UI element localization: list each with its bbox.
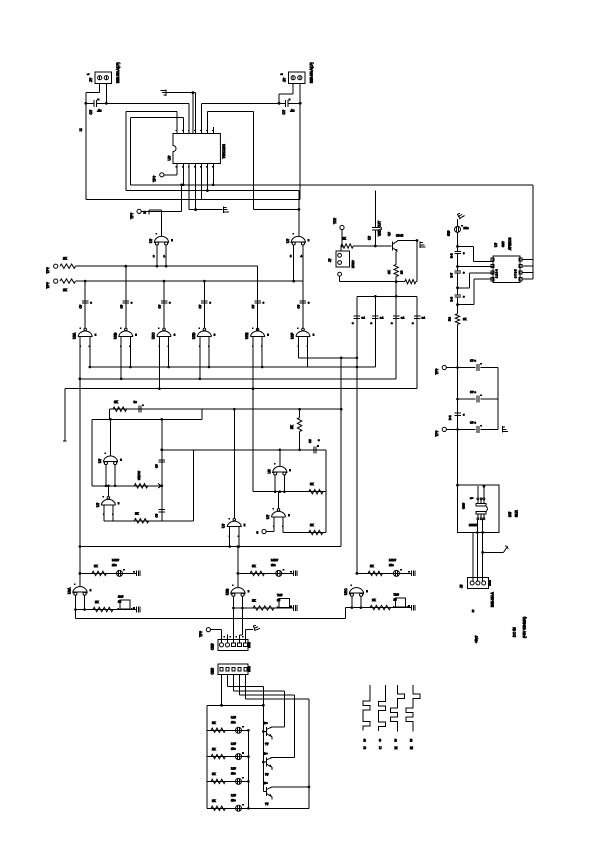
pin bubble U4B <box>262 529 266 533</box>
wire CH1 pin2 stub <box>227 635 229 640</box>
wire gate U5X feed <box>233 409 235 518</box>
svg-text:C?: C? <box>308 439 312 443</box>
nand gate U?B <box>119 328 138 347</box>
wire chain a <box>457 232 459 251</box>
wire row2M <box>233 607 293 609</box>
junction chain a <box>456 245 459 248</box>
junctions row2M <box>232 607 244 610</box>
crystal Y1 <box>117 600 132 610</box>
svg-text:16: 16 <box>118 600 122 604</box>
wire IC pin1 bot <box>176 164 178 175</box>
wire fan p4 <box>239 675 241 695</box>
ground right column <box>457 211 465 219</box>
wire block row4 <box>207 807 249 809</box>
nand gate U?F <box>296 328 315 347</box>
svg-text:(+5V GB4MA): (+5V GB4MA) <box>523 617 527 638</box>
wire block left <box>206 705 208 808</box>
wire crystal drop2 <box>374 230 376 246</box>
capacitor column C3 <box>82 301 89 303</box>
svg-text:DC IN: DC IN <box>513 627 517 637</box>
wire IC pin5 bot <box>201 164 203 200</box>
resistor R8 <box>309 530 323 534</box>
wire block row2 <box>207 756 249 758</box>
junction chain c <box>456 286 459 289</box>
svg-text:U?: U? <box>268 469 272 473</box>
junctions legs buses <box>89 366 264 390</box>
junction collector <box>416 239 419 242</box>
wire U4B pin stub <box>266 531 274 533</box>
wire row2R riser <box>345 608 347 619</box>
svg-text:.1u: .1u <box>290 109 295 113</box>
wire gate column 2 <box>125 266 127 328</box>
svg-text:o.1: o.1 <box>361 316 365 320</box>
svg-text:U?: U? <box>286 239 290 243</box>
junctions mid row A <box>279 449 301 452</box>
ground top left <box>161 90 167 96</box>
wire gate leg 10 <box>307 337 309 368</box>
svg-text:C?: C? <box>155 464 159 468</box>
resistor R15 <box>250 571 265 575</box>
transistor Q4 <box>263 787 309 800</box>
wire fan p3 <box>233 675 235 691</box>
resistor R17 <box>368 571 383 575</box>
svg-text:B2B-XH-A(LF): B2B-XH-A(LF) <box>310 62 314 83</box>
svg-text:U?D: U?D <box>192 332 196 339</box>
waveform trace D1 <box>406 685 420 732</box>
svg-text:M: M <box>410 746 413 750</box>
capacitor C10 <box>159 460 166 462</box>
wire IC pin3 bot <box>188 164 190 210</box>
junction J2 pin2 <box>299 102 302 105</box>
wire rail x341 <box>340 358 342 547</box>
svg-text:33.R: 33.R <box>515 510 519 517</box>
wire J2 pin2 drop long <box>299 84 301 200</box>
wire gate leg 2 <box>120 337 122 379</box>
wire TP7 link <box>211 629 222 631</box>
diode D8 <box>236 804 245 811</box>
wire resistor drop <box>299 409 301 417</box>
junction gate A legs <box>156 265 168 268</box>
svg-text:GH?: GH? <box>462 503 466 510</box>
junction J1 pin2 <box>105 102 108 105</box>
svg-text:2K: 2K <box>94 564 98 568</box>
wire gate column 5 <box>302 281 304 328</box>
capacitor bypass x356 <box>354 316 361 318</box>
svg-text:APE8O8: APE8O8 <box>508 237 512 250</box>
junctions bracket <box>374 295 398 298</box>
svg-text:15o: 15o <box>231 798 236 802</box>
junction TC1 <box>341 245 344 248</box>
wire row2R <box>346 607 411 609</box>
wire net L5 <box>189 209 222 211</box>
wire chain top <box>162 449 194 451</box>
svg-text:J?: J? <box>460 584 464 588</box>
junction block top <box>262 704 265 707</box>
svg-text:SN74?: SN74? <box>137 470 141 480</box>
svg-text:TP?: TP? <box>199 631 203 637</box>
testpoint TP4 <box>54 279 58 283</box>
wire CH1 pin5 <box>245 630 247 640</box>
terminator row2R <box>408 605 415 611</box>
junction T3 rail <box>308 786 311 789</box>
svg-text:o.1: o.1 <box>401 316 405 320</box>
nand gate U?E <box>250 328 269 347</box>
wire row1R <box>357 572 411 574</box>
connector J5 DC 3-pin <box>468 578 491 589</box>
svg-text:o.1: o.1 <box>380 316 384 320</box>
wire row1 <box>76 265 258 267</box>
wire left vertical net H <box>85 103 87 199</box>
wire gate column 3 <box>163 281 165 328</box>
wire to U5 pin1 <box>458 245 474 247</box>
wire J4 top <box>340 246 342 251</box>
diode D3 <box>276 569 285 576</box>
terminator row2L <box>133 607 140 613</box>
wire C1 right to IC pin3 net <box>97 102 190 104</box>
resistor R5 <box>134 519 149 523</box>
junction L2 pin6 <box>206 189 209 192</box>
wire net L3 <box>86 199 300 201</box>
wire IC pin6 bot <box>206 164 208 191</box>
svg-text:7M?: 7M? <box>393 593 399 597</box>
svg-text:D-7: D-7 <box>450 273 454 278</box>
ground Q1 <box>420 242 426 248</box>
svg-text:CH?: CH? <box>211 643 215 650</box>
svg-text:TP?: TP? <box>130 213 134 219</box>
capacitor C13 <box>372 227 379 229</box>
wire TC1 drop <box>341 230 343 246</box>
wire mid row B <box>253 491 326 493</box>
capacitor C12 <box>314 445 319 453</box>
junction 281 a <box>395 280 398 283</box>
wire U3B legs <box>103 505 105 521</box>
terminator row2M <box>290 605 297 611</box>
resistor R4 <box>134 484 148 488</box>
junction chain2 <box>160 484 163 487</box>
wire branch right rail <box>497 368 499 430</box>
wire block right rail <box>247 730 249 808</box>
svg-text:U?C: U?C <box>152 332 156 339</box>
junction chain <box>160 448 163 451</box>
waveform trace B1 <box>391 685 405 732</box>
svg-text:U?A: U?A <box>68 587 72 594</box>
svg-text:.1u: .1u <box>97 109 102 113</box>
wire chain d <box>457 297 459 314</box>
connector CH1 5-pin <box>218 640 250 651</box>
wire U4A out <box>279 450 281 466</box>
svg-text:U?B: U?B <box>113 333 117 339</box>
capacitor C2 <box>285 99 290 107</box>
wire U4A legs <box>274 475 276 492</box>
wire U6C legs <box>351 597 353 608</box>
wire net 618 <box>75 618 345 620</box>
junction row1 g2 <box>124 265 127 268</box>
svg-text:TP?: TP? <box>435 430 439 436</box>
wire bus4 <box>65 388 417 390</box>
wire row2 <box>76 280 303 282</box>
wire gate B drop <box>298 191 300 236</box>
wire right loop <box>207 111 253 113</box>
wire gate B legs <box>293 245 295 281</box>
resistor R13 <box>92 571 107 575</box>
junction J1 left <box>84 102 87 105</box>
wire gate column 6 <box>257 266 259 328</box>
svg-text:EAR?: EAR? <box>351 260 355 268</box>
wire IC pin5 top <box>201 103 203 133</box>
svg-text:2K: 2K <box>212 772 216 776</box>
capacitor C9 <box>139 405 144 413</box>
diode D6 <box>236 752 245 759</box>
wire fan p2 <box>227 675 229 687</box>
resistor R16 <box>253 606 274 610</box>
svg-text:B=: B= <box>264 721 268 725</box>
nand gate U4B <box>271 508 290 527</box>
wire C1 left <box>86 102 94 104</box>
svg-text:LE?: LE? <box>231 715 236 719</box>
resistor R7 <box>309 490 323 494</box>
junction g5 rail bus4 <box>252 387 255 390</box>
waveform trace D0 <box>379 685 386 731</box>
wire rail x375 <box>374 296 376 367</box>
svg-text:15o: 15o <box>231 771 236 775</box>
wire rail x357 <box>356 296 358 573</box>
svg-text:U?C: U?C <box>344 588 348 595</box>
wire branch1 a <box>446 367 475 369</box>
wire net L2 <box>126 190 299 192</box>
capacitor C15 <box>477 394 482 402</box>
diode arrow dc <box>504 546 508 552</box>
svg-text:C? o: C? o <box>470 421 476 425</box>
crystal Y2 <box>277 598 292 608</box>
wire inner loop left <box>130 116 183 118</box>
svg-text:D-8: D-8 <box>448 415 452 420</box>
svg-text:C?: C? <box>119 304 123 308</box>
wire to U5 pin4 <box>458 304 475 306</box>
svg-text:U?: U? <box>96 503 100 507</box>
wire bus1 <box>298 357 357 359</box>
svg-text:+5v?: +5v? <box>475 635 479 643</box>
svg-text:B2B-XH-A(LF): B2B-XH-A(LF) <box>116 62 120 83</box>
wire left long vertical <box>79 337 81 587</box>
wire reg internals <box>477 486 479 498</box>
resistor R20 <box>211 754 225 758</box>
svg-text:C?: C? <box>155 513 159 517</box>
wire R6 bottom <box>299 432 301 450</box>
resistor R22 <box>211 806 225 810</box>
svg-text:16: 16 <box>393 598 397 602</box>
svg-text:2K: 2K <box>252 599 256 603</box>
svg-text:2K: 2K <box>372 598 376 602</box>
resistor R11 <box>405 279 416 283</box>
crystal Y3 <box>393 598 408 608</box>
testpoint TP3 <box>54 264 58 268</box>
wire chain stub <box>457 219 459 226</box>
wire dc3b <box>482 552 484 581</box>
junctions row2 <box>84 280 206 283</box>
svg-text:??: ?? <box>265 773 269 777</box>
wire crystal drop <box>374 191 376 228</box>
terminator row1M <box>290 571 297 577</box>
wire mid row C <box>283 532 326 534</box>
wire gate leg 8 <box>261 337 263 368</box>
wire base rail <box>262 705 264 791</box>
wire IC pin7 top stub <box>212 127 214 134</box>
wire IC pin2 bot <box>182 164 184 185</box>
svg-text:74HC164: 74HC164 <box>222 144 226 158</box>
svg-text:B=: B= <box>264 752 268 756</box>
resistor R3 <box>113 407 127 411</box>
junction R9 <box>374 245 377 248</box>
wire bus2 <box>90 366 376 368</box>
nand gate U5X <box>227 518 246 537</box>
svg-text:C?: C? <box>368 236 372 240</box>
svg-text:C?: C? <box>158 304 162 308</box>
wire U5 right rail <box>532 185 534 279</box>
junctions rails <box>340 357 358 369</box>
svg-text:C? o: C? o <box>470 359 476 363</box>
svg-text:7M?: 7M? <box>277 593 283 597</box>
wire dc1 <box>472 532 474 581</box>
wire gate leg 6 <box>199 337 201 379</box>
nand gate U?C <box>157 328 176 347</box>
svg-text:U?: U? <box>222 524 226 528</box>
diode D1 <box>455 225 464 232</box>
svg-text:U?: U? <box>168 156 172 161</box>
capacitor column C6 <box>201 301 208 303</box>
wire block row3 <box>207 780 249 782</box>
svg-text:14?: 14? <box>508 511 512 517</box>
junction reg corner <box>456 484 459 487</box>
wire gate leg 9 <box>297 337 299 358</box>
nand gate U?A <box>78 328 97 347</box>
wire net 546 <box>80 546 341 548</box>
junction right 573 <box>356 572 359 575</box>
ground branch3 <box>502 426 508 432</box>
svg-text:LED?: LED? <box>389 558 396 562</box>
wire chain b <box>457 254 459 271</box>
svg-text:R?o: R?o <box>463 226 469 230</box>
nand gate U4A <box>273 463 292 475</box>
wire branch1 b <box>480 367 498 369</box>
svg-text:2K: 2K <box>252 564 256 568</box>
svg-text:C?: C? <box>89 110 93 115</box>
svg-text:LED?: LED? <box>112 558 119 562</box>
capacitor D-8 <box>454 295 461 297</box>
wire IC pin4 top <box>195 93 197 134</box>
svg-text:U?: U? <box>98 459 102 463</box>
nand gate U3A <box>103 453 122 465</box>
svg-text:R4: R4 <box>448 317 452 321</box>
svg-text:U?B: U?B <box>226 589 230 595</box>
svg-text:U?: U? <box>266 515 270 519</box>
wire bracket feed <box>395 282 397 297</box>
svg-text:15o: 15o <box>271 563 276 567</box>
nand gate U2B tall <box>291 233 310 245</box>
wire branch2 b <box>480 398 498 400</box>
svg-text:J?: J? <box>328 258 332 262</box>
wire bus4 left drop <box>64 389 66 441</box>
svg-text:M: M <box>394 746 397 750</box>
transistor Q3 <box>263 757 294 770</box>
capacitor column C4 <box>123 301 130 303</box>
svg-text:C?: C? <box>79 304 83 308</box>
svg-text:LE?: LE? <box>231 793 236 797</box>
junction reg bottom <box>476 531 484 534</box>
wire to U5 pin2 <box>458 266 494 268</box>
svg-text:CH?: CH? <box>211 668 215 675</box>
capacitor bypass x396 <box>393 316 400 318</box>
wire R11 right <box>416 281 417 283</box>
connector J2 <box>289 72 306 84</box>
wire U4B out <box>278 492 280 509</box>
wire Q1 emitter drop <box>395 252 397 265</box>
svg-text:LE?: LE? <box>231 766 236 770</box>
junction J2 left <box>278 102 281 105</box>
wire B1 rail <box>110 408 342 410</box>
wire IC pin1 top <box>176 112 178 134</box>
svg-text:D-3: D-3 <box>450 253 454 258</box>
wire block top <box>207 704 263 706</box>
wire bracket <box>357 295 417 297</box>
junction fan p1 <box>220 704 223 707</box>
svg-text:TP?: TP? <box>153 176 157 182</box>
wire gate leg 7 <box>208 337 210 368</box>
junctions 546 <box>79 545 240 548</box>
wire chain c <box>457 273 459 294</box>
junction L5 pin4 <box>194 208 197 211</box>
wire right corner <box>416 241 418 282</box>
transistor Q1 <box>393 241 399 252</box>
svg-text:B3B-XH-A: B3B-XH-A <box>491 591 495 607</box>
connector J1 <box>95 72 112 84</box>
wire mid-left row <box>92 485 162 487</box>
svg-text:15o: 15o <box>231 747 236 751</box>
wire IC pin4 bot <box>195 164 197 210</box>
svg-text:2K: 2K <box>370 564 374 568</box>
resistor R12 <box>455 314 459 325</box>
wire gate A legs <box>156 245 158 266</box>
svg-text:Q?: Q? <box>387 232 391 236</box>
svg-text:1M?: 1M? <box>118 595 124 599</box>
diode D4 <box>393 569 402 576</box>
stub bus4 end <box>63 440 66 442</box>
junctions L1 <box>180 184 214 187</box>
wire B2 rail <box>92 419 202 421</box>
wire branch3 a <box>446 428 475 430</box>
wire bus3 <box>80 378 396 380</box>
capacitor column C5 <box>161 301 168 303</box>
capacitor column C8 <box>300 301 307 303</box>
junctions T bases <box>262 730 265 763</box>
wire R9 to Q1 <box>353 245 391 247</box>
capacitor C16 <box>477 425 482 433</box>
testpoint TC1 <box>340 225 344 229</box>
resistor R6 <box>297 418 301 432</box>
transistor Q2 <box>263 727 284 740</box>
wire gate leg 4 <box>158 337 160 389</box>
ground CH1 <box>253 623 260 631</box>
junction pin4 top <box>192 91 195 94</box>
connector CHA2 5-pin <box>218 664 250 675</box>
wire U5X legs <box>229 527 231 547</box>
waveform trace B0 <box>363 685 370 731</box>
wire mid row A <box>162 449 326 451</box>
svg-text:0: 0 <box>379 739 381 743</box>
wire mid-left vertical <box>91 419 93 486</box>
wire regulator box <box>458 485 499 532</box>
wire row1 drop to gate5 <box>257 266 259 331</box>
nand gate U6C <box>349 584 368 596</box>
